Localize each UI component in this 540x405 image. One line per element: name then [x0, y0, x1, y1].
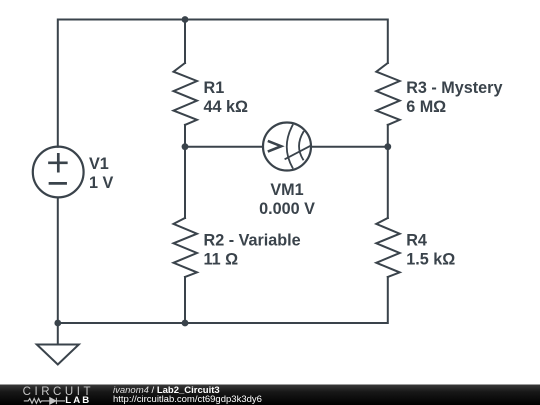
- wire bottom rail: [58, 277, 388, 323]
- node B (left mid junction): [182, 143, 189, 150]
- svg-text:R4: R4: [406, 232, 427, 250]
- wire middle horizontal left of voltmeter: [185, 146, 263, 148]
- resistor R2: [174, 218, 198, 277]
- node C (right mid junction): [384, 143, 391, 150]
- svg-text:R2 - Variable: R2 - Variable: [204, 232, 301, 250]
- svg-text:44 kΩ: 44 kΩ: [204, 98, 249, 116]
- voltage source V1: [33, 147, 84, 198]
- wire R2 bottom stub: [184, 277, 186, 323]
- wire right rail between R3 and R4: [387, 125, 389, 218]
- footer bar: [0, 385, 540, 405]
- svg-text:6 MΩ: 6 MΩ: [406, 98, 446, 116]
- svg-text:1.5 kΩ: 1.5 kΩ: [406, 251, 455, 269]
- logo wire squiggle and diode: [24, 398, 65, 404]
- svg-text:1 V: 1 V: [89, 174, 114, 192]
- svg-text:VM1: VM1: [270, 181, 303, 199]
- svg-text:LAB: LAB: [65, 395, 91, 405]
- ground: [37, 345, 79, 365]
- node D (bottom mid junction): [182, 320, 189, 327]
- svg-text:R3 - Mystery: R3 - Mystery: [406, 79, 502, 97]
- wire R1 top stub: [184, 20, 186, 64]
- wire middle rail between R1 and R2: [184, 125, 186, 218]
- svg-text:V1: V1: [89, 155, 109, 173]
- resistor R1: [174, 63, 198, 125]
- wire V1 bottom to ground: [57, 198, 59, 345]
- svg-text:R1: R1: [204, 79, 225, 97]
- resistor R4: [376, 218, 399, 277]
- node E (bottom left junction): [54, 320, 61, 327]
- resistor R3: [376, 63, 399, 125]
- svg-text:11 Ω: 11 Ω: [204, 251, 239, 269]
- node A (top junction): [182, 16, 189, 23]
- svg-text:0.000 V: 0.000 V: [259, 200, 315, 218]
- svg-text:http://circuitlab.com/ct69gdp3: http://circuitlab.com/ct69gdp3k3dy6: [113, 394, 262, 405]
- wire top rail: left vertical, top horizontal, right top stub: [58, 20, 388, 147]
- voltmeter VM1: [263, 123, 311, 171]
- wire middle horizontal right of voltmeter: [311, 146, 388, 148]
